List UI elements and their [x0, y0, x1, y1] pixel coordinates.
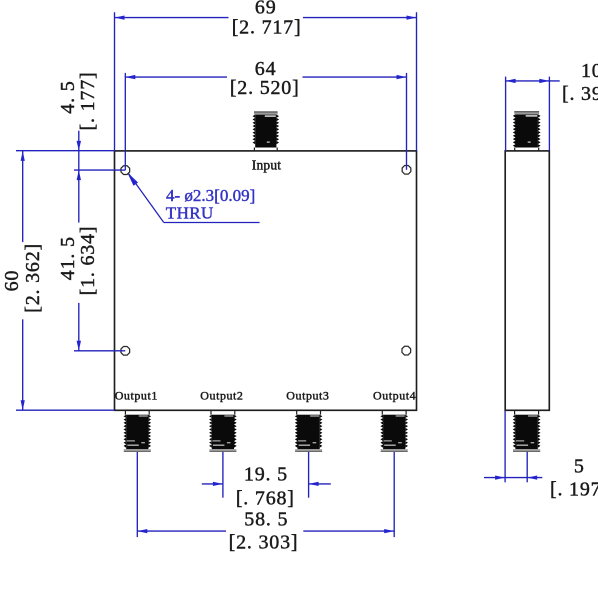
svg-text:Output4: Output4: [373, 389, 416, 403]
svg-text:41. 5: 41. 5: [57, 236, 79, 280]
svg-text:[. 768]: [. 768]: [236, 487, 295, 509]
svg-text:4- ø2.3[0.09]: 4- ø2.3[0.09]: [166, 186, 255, 205]
svg-text:60: 60: [1, 270, 23, 292]
svg-text:[2. 303]: [2. 303]: [229, 531, 299, 553]
svg-text:[2. 362]: [2. 362]: [22, 243, 44, 313]
svg-text:[2. 520]: [2. 520]: [230, 77, 300, 99]
svg-text:Output3: Output3: [286, 389, 329, 403]
svg-text:[. 197]: [. 197]: [550, 478, 598, 500]
svg-text:Output1: Output1: [115, 389, 158, 403]
svg-text:[2. 717]: [2. 717]: [232, 16, 302, 38]
svg-text:Output2: Output2: [200, 389, 243, 403]
svg-text:[. 394]: [. 394]: [562, 83, 598, 105]
svg-text:[. 177]: [. 177]: [77, 72, 99, 131]
svg-text:4. 5: 4. 5: [57, 80, 79, 113]
svg-text:10: 10: [581, 60, 598, 82]
svg-text:58. 5: 58. 5: [244, 509, 288, 531]
svg-text:Input: Input: [252, 158, 282, 173]
svg-text:[1. 634]: [1. 634]: [77, 226, 99, 296]
svg-text:19. 5: 19. 5: [244, 463, 288, 485]
svg-text:THRU: THRU: [166, 203, 214, 222]
svg-text:5: 5: [574, 455, 585, 477]
